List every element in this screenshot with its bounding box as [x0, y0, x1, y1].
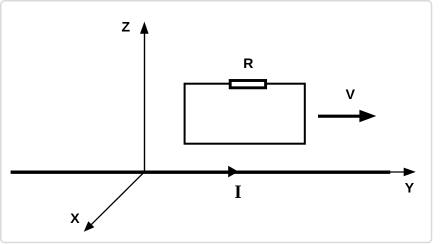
svg-text:I: I: [234, 182, 241, 203]
X axis line: [88, 172, 145, 229]
Y axis arrowhead: [404, 168, 416, 177]
Y axis thin line: [388, 171, 410, 173]
current arrowhead: [228, 166, 238, 178]
svg-text:V: V: [346, 86, 356, 102]
Z axis arrowhead: [140, 22, 149, 34]
svg-text:Y: Y: [405, 180, 415, 196]
velocity arrow shaft: [318, 115, 361, 118]
wire (current-carrying conductor along Y axis): [11, 170, 391, 173]
Z axis line: [144, 30, 146, 172]
svg-text:Z: Z: [122, 18, 131, 34]
svg-text:X: X: [70, 210, 80, 226]
conducting loop: [185, 84, 305, 144]
velocity arrowhead: [359, 110, 376, 123]
svg-text:R: R: [243, 55, 253, 71]
X axis arrowhead: [84, 221, 95, 232]
resistor R: [230, 81, 265, 88]
